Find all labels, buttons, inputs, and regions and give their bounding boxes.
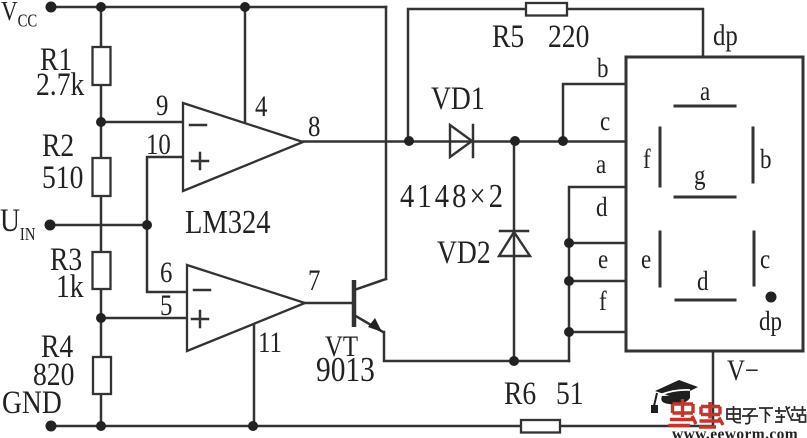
transistor Q1 VT9013 [354, 279, 386, 332]
node UIN terminal [45, 220, 56, 231]
node e junction [564, 276, 574, 286]
svg-text:9: 9 [156, 89, 168, 122]
svg-text:a: a [596, 149, 606, 179]
watermark graduation cap icon [651, 380, 698, 413]
node f junction [564, 327, 574, 337]
node b-c junction [558, 136, 568, 146]
op-amp U2 plus sign [192, 311, 208, 327]
node top rail at pin4 [240, 2, 250, 12]
svg-text:VD2: VD2 [437, 234, 491, 271]
node emitter VD2 junction [509, 356, 519, 366]
node d junction [564, 238, 574, 248]
node divider at pin9 [96, 117, 106, 127]
svg-text:www.eeworm.com: www.eeworm.com [672, 426, 798, 438]
node pin8 output junction [404, 136, 414, 146]
wire pin 11 to ground rail [253, 325, 256, 426]
op-amp U2 (LM324 section, pins 6,5,7,11) [187, 265, 305, 351]
op-amp U1 (LM324 section, pins 9,10,8,4) [183, 103, 303, 191]
resistor R4 body [93, 357, 111, 394]
svg-text:510: 510 [42, 159, 83, 196]
svg-text:VD1: VD1 [431, 80, 485, 117]
op-amp U1 minus sign [190, 124, 206, 127]
resistor R1 body [93, 47, 111, 85]
svg-text:d: d [596, 192, 608, 222]
wire b segment link [563, 84, 626, 141]
resistor R2 body [93, 158, 111, 196]
node GND terminal [46, 421, 57, 432]
wire resistor divider chain [100, 7, 103, 426]
svg-text:g: g [694, 160, 706, 190]
svg-text:dp: dp [713, 19, 738, 52]
wire VD2 branch [513, 141, 516, 361]
svg-text:e: e [598, 244, 608, 274]
node divider at pin5 [96, 313, 106, 323]
svg-text:7: 7 [308, 264, 320, 297]
svg-text:220: 220 [548, 18, 589, 55]
svg-text:d: d [697, 266, 709, 296]
svg-text:a: a [700, 76, 710, 106]
svg-text:R6: R6 [504, 375, 536, 412]
svg-text:b: b [597, 53, 608, 83]
node UIN junction [142, 220, 152, 230]
svg-text:4: 4 [255, 90, 268, 123]
watermark chongchong red characters [669, 399, 724, 427]
segment g stroke [675, 196, 735, 199]
segment e stroke [659, 232, 662, 286]
node ground rail at divider [96, 421, 106, 431]
wire R5 branch riser and dp drop [408, 9, 703, 141]
wire f stub [569, 331, 626, 334]
wire pin 8 output to display c line [303, 140, 626, 143]
svg-text:GND: GND [2, 384, 62, 421]
wire pin 10 / pin 6 input link [147, 157, 187, 292]
svg-text:LM324: LM324 [185, 203, 271, 241]
diode VD1 [450, 125, 473, 157]
segment c stroke [753, 232, 756, 285]
wire V- riser [712, 351, 715, 426]
segment a stroke [675, 105, 735, 108]
svg-text:10: 10 [146, 128, 171, 161]
wire VCC rail drop to transistor collector [385, 7, 388, 279]
node top rail at divider [96, 2, 106, 12]
node VD1 cathode junction [510, 136, 520, 146]
display DS1 7-segment box [626, 57, 803, 351]
wire d stub [569, 242, 626, 245]
node ground rail at pin11 [248, 421, 258, 431]
resistor R3 body [93, 252, 111, 289]
wire pin 4 to top rail [244, 7, 247, 124]
svg-text:dp: dp [759, 306, 782, 336]
svg-text:11: 11 [258, 326, 282, 359]
resistor R6 body [521, 420, 560, 433]
svg-text:8: 8 [308, 110, 320, 143]
node VCC terminal [46, 2, 57, 13]
wire emitter run [384, 332, 569, 361]
svg-text:f: f [599, 286, 607, 316]
wire op-amp2 output to base [305, 302, 352, 305]
svg-text:2.7k: 2.7k [36, 66, 85, 103]
wire pin 9 input [101, 121, 183, 124]
svg-text:c: c [600, 106, 610, 136]
svg-text:51: 51 [556, 375, 584, 412]
svg-text:V−: V− [727, 354, 759, 387]
svg-text:f: f [643, 144, 651, 174]
wire bottom ground rail [51, 425, 713, 428]
wire pin 5 input [101, 317, 187, 320]
svg-text:R5: R5 [492, 18, 524, 55]
segment dp dot [766, 292, 777, 303]
watermark site name characters [727, 406, 806, 424]
svg-text:e: e [641, 244, 651, 274]
wire UIN input [50, 224, 147, 227]
svg-text:c: c [760, 244, 770, 274]
svg-text:1k: 1k [56, 268, 84, 305]
svg-text:9013: 9013 [316, 351, 375, 390]
segment d stroke [676, 299, 735, 302]
op-amp U2 minus sign [194, 289, 210, 292]
wire e stub [569, 280, 626, 283]
diode VD2 [499, 231, 530, 256]
svg-text:b: b [760, 144, 771, 174]
op-amp U1 plus sign [192, 153, 208, 169]
wire top VCC rail [51, 6, 386, 9]
segment f stroke [659, 128, 662, 186]
svg-text:6: 6 [160, 256, 172, 289]
resistor R5 body [526, 3, 567, 16]
svg-text:5: 5 [160, 289, 172, 322]
segment b stroke [752, 128, 755, 182]
wire a-d-e-f bus [569, 187, 626, 361]
